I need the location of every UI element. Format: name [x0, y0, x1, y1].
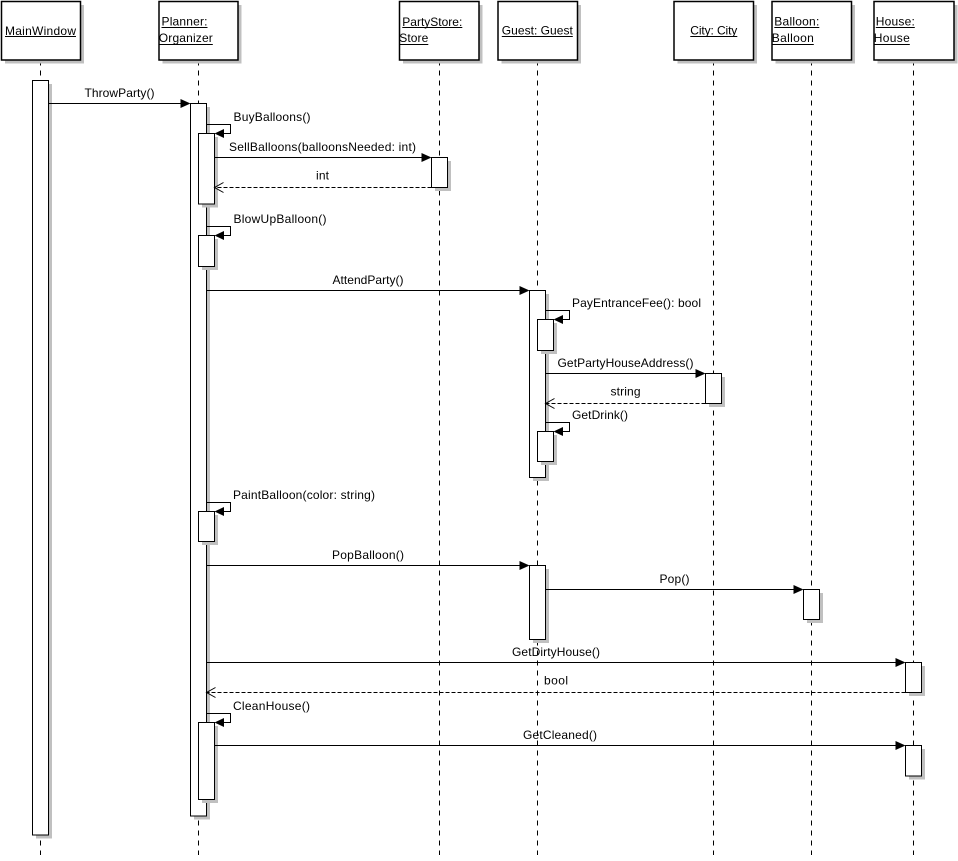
svg-text:House: House [874, 31, 910, 45]
svg-text:Planner:: Planner: [162, 15, 208, 29]
message PopBalloon [207, 548, 530, 570]
svg-text:Organizer: Organizer [159, 31, 213, 45]
activation Balloon [804, 590, 824, 624]
svg-text:Guest: Guest: Guest: Guest [502, 24, 574, 38]
activation House GetDirtyHouse [906, 663, 926, 697]
self message BuyBalloons [207, 110, 311, 138]
svg-text:ThrowParty(): ThrowParty() [85, 86, 155, 100]
participant Planner: Organizer [159, 2, 242, 64]
self message BlowUpBalloon [207, 212, 327, 240]
lifeline Planner [198, 61, 200, 856]
svg-text:MainWindow: MainWindow [5, 24, 76, 38]
message GetCleaned [215, 728, 906, 750]
svg-text:bool: bool [544, 674, 568, 688]
message Pop [546, 572, 804, 594]
activation MainWindow [33, 81, 53, 839]
activation City [706, 374, 726, 408]
activation Guest PayEntranceFee nested [538, 320, 558, 355]
svg-text:string: string [611, 385, 641, 399]
participant City: City [674, 2, 757, 64]
self message PayEntranceFee [546, 296, 702, 324]
svg-text:House:: House: [876, 15, 915, 29]
svg-text:CleanHouse(): CleanHouse() [233, 699, 310, 713]
svg-text:int: int [316, 169, 330, 183]
activation PartyStore [432, 158, 452, 192]
activation House GetCleaned [906, 746, 926, 780]
lifeline MainWindow [40, 61, 42, 856]
message GetDirtyHouse [207, 645, 906, 667]
activation Planner PaintBalloon nested [199, 512, 219, 546]
svg-text:City: City: City: City [690, 24, 737, 38]
svg-text:GetDrink(): GetDrink() [572, 408, 628, 422]
lifeline Guest [537, 61, 539, 856]
participant Guest: Guest [498, 2, 581, 64]
svg-text:Pop(): Pop() [660, 572, 690, 586]
participant House: House [874, 2, 958, 64]
svg-text:PayEntranceFee(): bool: PayEntranceFee(): bool [572, 296, 701, 310]
message ThrowParty [49, 86, 191, 108]
svg-text:GetPartyHouseAddress(): GetPartyHouseAddress() [558, 356, 694, 370]
activation Planner BlowUpBalloon nested [199, 236, 219, 271]
svg-text:SellBalloons(balloonsNeeded: i: SellBalloons(balloonsNeeded: int) [229, 140, 416, 154]
return int [215, 169, 432, 193]
participant PartyStore: Store [399, 2, 482, 64]
lifeline Balloon [811, 61, 813, 856]
activation Guest PopBalloon [530, 566, 550, 644]
svg-text:GetDirtyHouse(): GetDirtyHouse() [512, 645, 600, 659]
self message GetDrink [546, 408, 629, 436]
participant MainWindow [2, 2, 85, 64]
svg-text:BuyBalloons(): BuyBalloons() [234, 110, 311, 124]
lifeline House [913, 61, 915, 856]
svg-text:PartyStore:: PartyStore: [402, 15, 462, 29]
activation Guest GetDrink nested [538, 432, 558, 466]
svg-text:GetCleaned(): GetCleaned() [523, 728, 597, 742]
svg-text:Store: Store [399, 31, 428, 45]
svg-text:AttendParty(): AttendParty() [333, 273, 404, 287]
participant Balloon: Balloon [772, 2, 855, 64]
svg-text:PopBalloon(): PopBalloon() [332, 548, 404, 562]
activation Planner main [191, 104, 211, 820]
lifeline PartyStore [439, 61, 441, 856]
message SellBalloons [215, 140, 432, 162]
return bool [207, 674, 906, 698]
activation Guest main [530, 291, 550, 482]
activation Planner BuyBalloons nested [199, 134, 219, 208]
svg-text:BlowUpBalloon(): BlowUpBalloon() [234, 212, 327, 226]
return string [546, 385, 706, 409]
message GetPartyHouseAddress [546, 356, 706, 378]
svg-text:Balloon: Balloon [772, 31, 814, 45]
activation Planner CleanHouse nested [199, 723, 219, 804]
self message PaintBalloon [207, 488, 376, 516]
self message CleanHouse [207, 699, 311, 727]
lifeline City [713, 61, 715, 856]
svg-text:PaintBalloon(color: string): PaintBalloon(color: string) [233, 488, 375, 502]
svg-text:Balloon:: Balloon: [774, 15, 819, 29]
message AttendParty [207, 273, 530, 295]
